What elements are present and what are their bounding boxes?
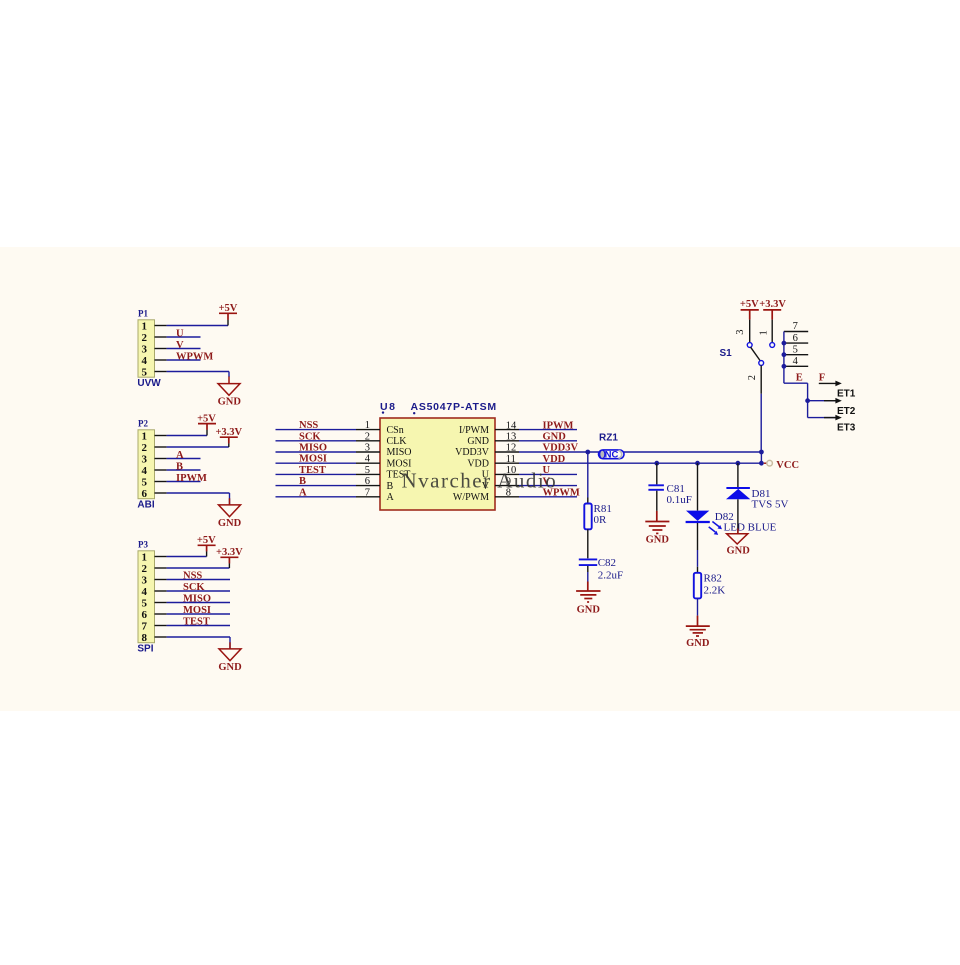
svg-text:RZ1: RZ1 — [599, 432, 618, 443]
svg-text:8: 8 — [142, 632, 148, 644]
wire R81 to C82 — [587, 529, 589, 558]
svg-text:V: V — [176, 340, 184, 351]
wire U8 pin13 net GND — [519, 440, 577, 442]
wire junction to D81 — [737, 463, 739, 487]
svg-text:CSn: CSn — [387, 425, 404, 436]
svg-text:MISO: MISO — [387, 447, 412, 458]
wire between rails — [760, 452, 762, 463]
svg-text:GND: GND — [543, 432, 567, 443]
wire P1 pin2 net U — [167, 336, 201, 338]
node junction ET2 — [805, 398, 810, 403]
svg-text:TVS 5V: TVS 5V — [752, 499, 789, 511]
svg-text:C82: C82 — [598, 557, 616, 569]
svg-text:IPWM: IPWM — [543, 420, 574, 431]
svg-text:MISO: MISO — [183, 594, 211, 605]
svg-text:+5V: +5V — [740, 299, 759, 310]
connector P1 — [137, 308, 166, 388]
svg-text:6: 6 — [365, 476, 370, 487]
svg-text:4: 4 — [365, 454, 371, 465]
svg-text:1: 1 — [142, 320, 148, 332]
node junction S1 drop on VDD3V rail — [759, 450, 764, 455]
svg-text:MOSI: MOSI — [183, 605, 211, 616]
svg-text:2.2uF: 2.2uF — [598, 569, 623, 581]
svg-text:B: B — [176, 461, 183, 472]
svg-text:+3.3V: +3.3V — [215, 427, 242, 438]
svg-text:A: A — [299, 487, 307, 498]
node junction D82 tap — [695, 461, 700, 466]
wire P2 pin1 to +5V — [167, 430, 207, 436]
svg-text:IPWM: IPWM — [176, 473, 207, 484]
svg-text:11: 11 — [506, 454, 516, 465]
svg-text:2: 2 — [142, 563, 148, 575]
svg-text:2.2K: 2.2K — [704, 584, 726, 596]
wire U8 pin2 net SCK — [276, 440, 357, 442]
wire D82 to R82 — [697, 523, 699, 573]
svg-text:4: 4 — [793, 356, 799, 367]
svg-text:GND: GND — [727, 546, 751, 557]
svg-text:GND: GND — [467, 436, 489, 447]
svg-text:ET1: ET1 — [837, 388, 856, 399]
TVS diode D81 TVS 5V — [726, 488, 789, 511]
jumper RZ1 NC — [599, 432, 625, 460]
svg-text:2: 2 — [142, 332, 148, 344]
off-sheet arrow ET1 — [819, 381, 856, 400]
wire P1 pin1 to +5V — [167, 320, 228, 326]
svg-text:7: 7 — [793, 321, 798, 332]
wire U8 pin6 net B — [276, 485, 357, 487]
wire C81 to GND — [656, 491, 658, 511]
wire S1 common vertical — [783, 332, 785, 384]
node junction pin5 — [782, 352, 787, 357]
off-sheet arrow ET3 — [808, 415, 856, 434]
wire U8 pin4 net MOSI — [276, 462, 357, 464]
svg-text:U8: U8 — [380, 401, 397, 413]
wire VDD3V rail pin12 to S1 — [519, 451, 761, 453]
power port +5V (P3) — [197, 535, 216, 551]
svg-text:B: B — [387, 481, 394, 492]
ground GND (C82) — [576, 582, 600, 616]
svg-text:ET3: ET3 — [837, 422, 856, 433]
svg-text:5: 5 — [365, 465, 370, 476]
svg-text:Nvarcher Audio: Nvarcher Audio — [402, 468, 558, 492]
power port +5V (P1) — [219, 303, 238, 320]
svg-text:AS5047P-ATSM: AS5047P-ATSM — [411, 401, 497, 413]
LED D82 LED BLUE — [686, 511, 777, 535]
ground GND (P3) — [218, 642, 242, 673]
svg-text:5: 5 — [142, 597, 148, 609]
wire P1 pin5 to GND — [167, 372, 229, 378]
svg-text:TEST: TEST — [183, 617, 210, 628]
capacitor C82 2.2uF — [579, 557, 623, 581]
wire D81 to GND — [737, 499, 739, 533]
connector P3 — [137, 539, 166, 654]
wire U8 pin14 net IPWM — [519, 429, 577, 431]
svg-text:LED BLUE: LED BLUE — [724, 521, 777, 533]
wire P3 pin4 net SCK — [167, 590, 230, 592]
svg-text:6: 6 — [142, 488, 148, 500]
svg-text:GND: GND — [218, 397, 242, 408]
resistor R82 2.2K — [694, 573, 725, 599]
wire P2 pin3 net A — [167, 458, 201, 460]
svg-text:SCK: SCK — [299, 431, 321, 442]
svg-text:12: 12 — [506, 443, 517, 454]
wire P2 pin4 net B — [167, 469, 201, 471]
svg-text:MOSI: MOSI — [299, 454, 327, 465]
wire net E — [784, 383, 808, 417]
svg-text:2: 2 — [142, 442, 148, 454]
wire U8 pin5 net TEST — [276, 473, 357, 475]
svg-text:1: 1 — [142, 430, 148, 442]
capacitor C81 0.1uF — [648, 483, 691, 506]
svg-text:A: A — [176, 450, 184, 461]
power port +3.3V (S1) — [759, 299, 786, 319]
node junction D81 tap — [736, 461, 741, 466]
svg-text:NSS: NSS — [183, 571, 202, 582]
svg-text:P3: P3 — [138, 539, 148, 549]
svg-text:E: E — [796, 373, 803, 384]
svg-text:3: 3 — [142, 343, 148, 355]
svg-text:VDD3V: VDD3V — [455, 447, 490, 458]
svg-text:1: 1 — [365, 420, 370, 431]
connector P2 — [137, 418, 166, 510]
off-sheet arrow ET2 — [808, 398, 856, 417]
wire R82 to GND — [697, 598, 699, 615]
svg-text:5: 5 — [142, 476, 148, 488]
ground GND (D81) — [727, 529, 751, 557]
ground GND (R82) — [686, 616, 710, 649]
svg-text:U: U — [176, 328, 184, 339]
ground GND (P1) — [218, 377, 242, 408]
svg-text:P2: P2 — [138, 418, 148, 428]
svg-text:5: 5 — [793, 344, 798, 355]
svg-text:B: B — [299, 476, 306, 487]
svg-text:6: 6 — [142, 609, 148, 621]
wire P3 pin6 net MOSI — [167, 613, 230, 615]
power port +5V (P2) — [197, 414, 216, 430]
wire P2 pin5 net IPWM — [167, 481, 201, 483]
svg-text:I/PWM: I/PWM — [459, 425, 489, 436]
svg-text:GND: GND — [218, 662, 242, 673]
svg-text:5: 5 — [142, 366, 148, 378]
wire P3 pin8 to GND — [167, 637, 230, 649]
svg-text:ABI: ABI — [137, 499, 154, 510]
wire P2 pin2 to +3.3V — [167, 443, 229, 447]
svg-text:2: 2 — [747, 375, 758, 380]
wire P3 pin3 net NSS — [167, 579, 230, 581]
svg-text:3: 3 — [142, 574, 148, 586]
svg-text:MISO: MISO — [299, 443, 327, 454]
switch S1 pins 7-4 — [784, 321, 808, 367]
svg-text:F: F — [819, 373, 825, 384]
svg-text:NC: NC — [605, 450, 619, 461]
ground GND (P2) — [218, 498, 242, 529]
wire P2 pin6 to GND — [167, 493, 230, 505]
svg-text:13: 13 — [506, 432, 517, 443]
wire P3 pin5 net MISO — [167, 602, 230, 604]
svg-text:+5V: +5V — [219, 303, 238, 314]
node junction C81 tap — [654, 461, 659, 466]
node junction pin6 — [782, 341, 787, 346]
svg-text:S1: S1 — [720, 348, 733, 359]
svg-text:14: 14 — [506, 420, 517, 431]
svg-text:+3.3V: +3.3V — [759, 299, 786, 310]
svg-text:GND: GND — [218, 518, 242, 529]
wire C82 to GND — [587, 566, 589, 582]
ground GND (C81) — [645, 511, 669, 546]
power port +3.3V (P3) — [216, 547, 243, 563]
svg-text:+5V: +5V — [197, 535, 216, 546]
svg-text:CLK: CLK — [387, 436, 408, 447]
wire P1 pin4 net WPWM — [167, 359, 201, 361]
wire S1 pin2 to VCC rail — [760, 394, 762, 452]
svg-text:1: 1 — [759, 330, 770, 335]
svg-text:A: A — [387, 492, 395, 503]
power port VCC — [764, 460, 799, 471]
node junction pin4 — [782, 364, 787, 369]
wire U8 pin3 net MISO — [276, 451, 357, 453]
wire P3 pin7 net TEST — [167, 625, 230, 627]
svg-text:GND: GND — [646, 535, 670, 546]
svg-text:NSS: NSS — [299, 420, 318, 431]
svg-text:1: 1 — [142, 551, 148, 563]
power port +3.3V (P2) — [215, 427, 242, 443]
svg-text:3: 3 — [735, 329, 746, 334]
svg-text:SCK: SCK — [183, 582, 205, 593]
svg-text:+3.3V: +3.3V — [216, 547, 243, 558]
svg-text:3: 3 — [142, 453, 148, 465]
wire junction to D82 — [697, 463, 699, 510]
wire P3 pin1 to +5V — [167, 551, 207, 556]
svg-text:2: 2 — [365, 431, 370, 442]
svg-text:ET2: ET2 — [837, 406, 856, 417]
svg-text:7: 7 — [365, 487, 370, 498]
svg-text:GND: GND — [577, 604, 601, 615]
svg-text:0.1uF: 0.1uF — [667, 494, 692, 506]
wire P3 pin2 to +3.3V — [167, 563, 230, 568]
svg-text:6: 6 — [793, 333, 798, 344]
wire U8 pin10 net U — [519, 473, 577, 475]
svg-text:GND: GND — [686, 638, 710, 649]
power port +5V (S1) — [740, 299, 759, 319]
svg-text:W/PWM: W/PWM — [453, 492, 489, 503]
wire P1 pin3 net V — [167, 348, 201, 350]
node junction R81 tap — [585, 450, 590, 455]
wire U8 pin9 net V — [519, 485, 577, 487]
wire VDD rail pin11 to VCC — [519, 462, 761, 464]
resistor R81 0R — [584, 503, 612, 530]
switch S1 — [720, 320, 775, 394]
svg-text:4: 4 — [142, 355, 148, 367]
svg-text:TEST: TEST — [299, 465, 326, 476]
svg-text:7: 7 — [142, 620, 148, 632]
wire U8 pin7 net A — [276, 496, 357, 498]
wire U8 pin1 net NSS — [276, 429, 357, 431]
svg-text:0R: 0R — [594, 514, 608, 526]
svg-text:3: 3 — [365, 443, 370, 454]
svg-text:4: 4 — [142, 586, 148, 598]
svg-text:4: 4 — [142, 465, 148, 477]
node junction VCC — [759, 461, 764, 466]
svg-text:SPI: SPI — [137, 643, 153, 654]
wire junction to R81 — [587, 452, 589, 504]
wire U8 pin8 net WPWM — [519, 496, 577, 498]
wire junction to C81 — [656, 463, 658, 484]
IC U8 AS5047P-ATSM — [356, 401, 519, 510]
svg-text:R82: R82 — [704, 573, 722, 585]
svg-text:P1: P1 — [138, 308, 148, 318]
svg-text:UVW: UVW — [137, 378, 161, 389]
svg-text:WPWM: WPWM — [176, 351, 213, 362]
svg-text:VCC: VCC — [776, 460, 799, 471]
svg-text:+5V: +5V — [197, 414, 216, 425]
